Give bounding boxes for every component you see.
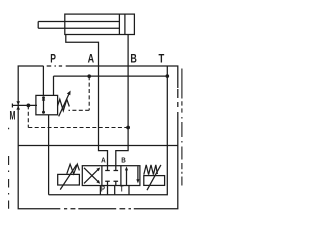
svg-text:T: T (159, 53, 165, 66)
svg-text:B: B (130, 54, 136, 66)
svg-text:A: A (88, 54, 95, 66)
svg-text:B: B (121, 157, 126, 165)
svg-text:P: P (50, 54, 56, 67)
svg-text:T: T (120, 186, 124, 194)
svg-text:A: A (101, 157, 106, 165)
svg-text:P: P (101, 186, 105, 194)
svg-text:M: M (10, 110, 16, 123)
